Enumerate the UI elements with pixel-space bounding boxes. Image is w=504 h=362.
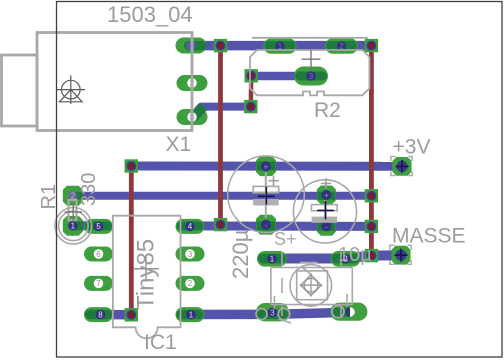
svg-text:-: - <box>265 221 268 230</box>
svg-text:7: 7 <box>96 279 101 288</box>
capacitor C2 silk <box>228 156 305 233</box>
R2 origin cross <box>302 50 321 69</box>
resistor R2 pads <box>264 38 359 85</box>
C2 holes <box>261 161 271 171</box>
via holes <box>126 41 376 320</box>
svg-text:3: 3 <box>270 308 275 317</box>
wire red via(131,166) to via(131,315) <box>129 166 134 315</box>
wire row4 S1 pads to MASSE <box>272 255 401 258</box>
wire red via(371,46) to via(371,256) <box>369 46 374 256</box>
svg-text:5: 5 <box>96 222 101 231</box>
wire X1 pad3 stub to via <box>192 107 251 117</box>
S1 crosshair <box>300 274 323 297</box>
pad holes <box>68 41 407 320</box>
wire IC pad8 stub to via <box>99 310 131 320</box>
via B (371,226) <box>365 220 378 233</box>
wire row5 IC pad1 to S1 pad4 <box>190 312 350 314</box>
+3V / MASSE hole crosses <box>395 160 409 262</box>
connector X1 pads <box>176 38 208 126</box>
svg-text:Tiny85: Tiny85 <box>133 239 160 310</box>
X1 drill cross symbol <box>57 75 86 104</box>
pad MASSE (octagon) <box>392 246 411 265</box>
svg-text:R2: R2 <box>314 99 341 122</box>
X1 pad1 hole <box>186 41 195 50</box>
X1 pad3 hole <box>187 112 197 122</box>
IC pad holes <box>94 222 104 232</box>
via (371,46) <box>365 39 378 52</box>
resistor R1 pads (octagons) <box>63 186 83 236</box>
svg-text:10µ: 10µ <box>338 244 372 266</box>
svg-text:8: 8 <box>98 310 103 319</box>
wire top-layer traces (red) <box>131 46 371 315</box>
wire via to R2 middle pad <box>251 72 311 81</box>
svg-text:3: 3 <box>188 250 193 259</box>
svg-text:IC1: IC1 <box>144 331 177 354</box>
capacitor C3 pads (octagons) <box>317 186 336 236</box>
svg-text:-: - <box>325 223 328 232</box>
IC1 silk outline <box>113 216 181 339</box>
wire row0 X1 pad1 to via at 371 <box>191 41 372 51</box>
svg-text:330: 330 <box>78 173 100 206</box>
via A (371,196) <box>365 189 378 202</box>
capacitor C2 pads (octagons) <box>256 156 276 234</box>
svg-text:6: 6 <box>96 250 101 259</box>
svg-text:+: + <box>264 162 269 171</box>
S1 silk curls near pads <box>256 294 347 323</box>
switch S1 pads <box>256 251 367 321</box>
svg-text:2: 2 <box>188 279 193 288</box>
svg-text:S+: S+ <box>274 229 297 249</box>
svg-text:1: 1 <box>189 310 194 319</box>
IC1 origin cross <box>133 256 159 282</box>
+3V hole <box>396 161 407 172</box>
via (251,76) <box>245 69 258 82</box>
R1 pad holes <box>68 191 77 200</box>
pad number digits <box>71 42 349 320</box>
capacitor C3 silk <box>293 178 356 243</box>
wire bottom-layer traces (blue) <box>73 46 402 315</box>
wire R1 bottom to IC pad5 <box>73 221 99 230</box>
svg-text:4: 4 <box>188 222 193 231</box>
svg-text:3: 3 <box>309 72 314 81</box>
resistor R1 silk (circles and lead) <box>55 200 92 244</box>
via (131,166) <box>125 159 138 172</box>
wire row1 via to +3V <box>131 162 402 171</box>
pad frames +3V / MASSE <box>390 157 412 265</box>
svg-text:1: 1 <box>270 255 275 264</box>
svg-text:+: + <box>324 191 329 200</box>
via (220,46) <box>214 39 227 52</box>
svg-text:220µ: 220µ <box>228 229 253 279</box>
via (220,224) <box>214 218 227 231</box>
via C (371,256) <box>365 249 378 262</box>
svg-text:1: 1 <box>71 222 76 231</box>
IC1 pads <box>84 219 205 322</box>
svg-text:1503_04: 1503_04 <box>107 2 193 27</box>
connector X1 silk outline <box>2 33 193 131</box>
wire red via(220,46) to via(220,224) <box>218 46 223 225</box>
X1 pad2 hole <box>187 78 197 88</box>
S1 holes <box>267 254 277 264</box>
wire row3 IC pad4 to via B <box>190 221 371 231</box>
C3 holes <box>321 190 331 200</box>
via (251,107) <box>244 100 257 113</box>
resistor R2 silk outline <box>250 38 369 96</box>
MASSE hole <box>395 250 406 261</box>
R1 origin cross <box>65 203 83 220</box>
wire red via(251,76) to via(251,107) <box>249 76 254 107</box>
via squares (green) <box>125 39 379 322</box>
R2 pad holes <box>275 41 284 50</box>
svg-text:+3V: +3V <box>393 136 431 159</box>
switch S1 silk <box>271 252 352 316</box>
svg-text:X1: X1 <box>166 133 192 156</box>
svg-text:MASSE: MASSE <box>392 225 466 248</box>
wire row2 R1 to via A <box>73 192 372 200</box>
pad +3V (octagon) <box>393 157 412 176</box>
via (131,315) <box>125 308 138 321</box>
